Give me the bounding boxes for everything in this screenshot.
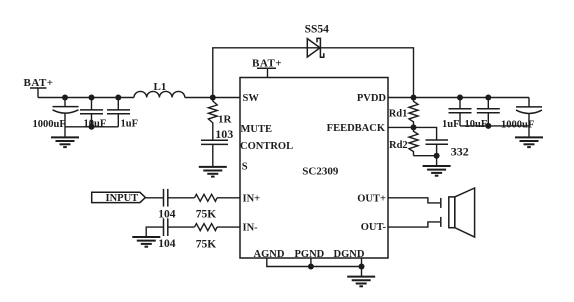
svg-text:75K: 75K <box>196 238 217 250</box>
svg-text:1R: 1R <box>218 113 233 125</box>
svg-text:OUT-: OUT- <box>361 222 387 233</box>
wire: L1 to SW pin <box>185 97 240 99</box>
node 10uF bottom junction <box>485 123 491 129</box>
wire: SW node up and across top to PVDD node <box>213 48 414 98</box>
terminal pin OUT+ <box>440 198 442 208</box>
wire: cap to 75K (IN+) <box>168 197 195 199</box>
node 332 bottom junction <box>434 153 440 159</box>
svg-text:PVDD: PVDD <box>357 93 387 104</box>
svg-text:SS54: SS54 <box>305 24 330 36</box>
svg-text:332: 332 <box>451 144 469 158</box>
wire: 75K to IN- pin <box>217 226 240 228</box>
op-amp U1 SC2309 (IC body) <box>240 78 388 259</box>
svg-text:Rd2: Rd2 <box>389 140 408 151</box>
capacitor 1000uF (right, polarized) <box>501 98 542 138</box>
svg-text:10uF: 10uF <box>465 119 488 130</box>
svg-text:1000uF: 1000uF <box>33 119 66 130</box>
node INPUT (signal tag) <box>92 192 146 204</box>
wire: cap to 75K (IN-) <box>168 226 195 228</box>
capacitor 104 (IN+ coupling) <box>158 189 176 220</box>
resistor 75K (IN-) <box>195 224 218 251</box>
svg-text:IN-: IN- <box>243 223 259 234</box>
ground (IC bottom) <box>347 277 375 287</box>
capacitor 10uF (left) <box>80 98 106 130</box>
wire: BAT+ rail to L1 <box>38 97 134 99</box>
capacitor 10uF (right) <box>465 98 500 131</box>
capacitor 1000uF (left, polarized) <box>33 98 79 138</box>
wire: AGND/PGND/DGND to ground bus <box>267 258 362 277</box>
node SW junction <box>210 95 216 101</box>
ground (IN- input) <box>132 227 163 247</box>
svg-text:10uF: 10uF <box>84 119 107 130</box>
svg-text:SC2309: SC2309 <box>302 165 339 177</box>
svg-text:Rd1: Rd1 <box>389 109 408 120</box>
svg-text:FEEDBACK: FEEDBACK <box>327 123 386 134</box>
node BAT+ (top of IC) <box>252 58 282 78</box>
svg-text:OUT+: OUT+ <box>357 194 386 205</box>
capacitor 1uF (right) <box>442 98 472 131</box>
wire: INPUT to coupling cap <box>145 197 163 199</box>
svg-text:104: 104 <box>158 238 176 250</box>
resistor 1R <box>208 98 232 141</box>
resistor Rd1 <box>389 98 418 128</box>
capacitor 104 (IN- coupling) <box>158 218 176 250</box>
wire: FEEDBACK to divider <box>388 127 437 140</box>
wire: 75K to IN+ pin <box>217 197 240 199</box>
svg-text:MUTE: MUTE <box>241 124 273 135</box>
ground (below 1000uF right) <box>515 137 543 147</box>
terminal pin OUT- <box>440 217 442 227</box>
inductor L1 <box>134 81 185 98</box>
capacitor 332 <box>426 140 469 158</box>
svg-text:1uF: 1uF <box>121 119 139 130</box>
svg-text:S: S <box>242 162 248 173</box>
svg-text:1uF: 1uF <box>442 119 460 130</box>
svg-text:CONTROL: CONTROL <box>240 141 293 152</box>
svg-text:AGND: AGND <box>254 249 285 260</box>
svg-text:INPUT: INPUT <box>106 193 139 204</box>
svg-text:103: 103 <box>215 127 233 141</box>
capacitor 103 <box>201 127 233 167</box>
node DGND junction <box>359 264 365 270</box>
ground (below 1000uF left) <box>51 137 79 147</box>
svg-text:DGND: DGND <box>334 249 365 260</box>
svg-text:BAT+: BAT+ <box>24 77 54 89</box>
wire: OUT- to speaker terminal <box>388 222 440 227</box>
svg-text:SW: SW <box>243 93 260 104</box>
wire: OUT+ to speaker terminal <box>388 198 440 203</box>
svg-text:1000uF: 1000uF <box>501 120 534 131</box>
resistor Rd2 <box>389 127 418 155</box>
junction: 10uF bottom <box>89 124 95 130</box>
resistor 75K (IN+) <box>195 194 218 220</box>
capacitor 1uF (left) <box>107 98 138 130</box>
node feedback junction <box>411 124 417 130</box>
ground (below capacitor 103) <box>199 167 227 177</box>
wire: bottom bus joining right capacitors <box>460 125 529 127</box>
node PVDD junction <box>411 95 417 101</box>
ground (below 332) <box>423 166 451 176</box>
junction dots on left rail <box>62 95 68 101</box>
speaker LS1 <box>449 188 475 237</box>
wire: PVDD rail <box>388 97 529 99</box>
wire: Rd2 bottom to 332 bottom <box>414 156 437 166</box>
wire: bottom bus joining left capacitors <box>65 126 118 128</box>
svg-text:IN+: IN+ <box>243 194 261 205</box>
svg-text:75K: 75K <box>196 209 217 221</box>
node BAT+ (left supply flag) <box>24 77 54 98</box>
node PGND junction <box>308 264 314 270</box>
diode SS54 (schottky) <box>305 24 330 58</box>
svg-text:PGND: PGND <box>295 249 325 260</box>
